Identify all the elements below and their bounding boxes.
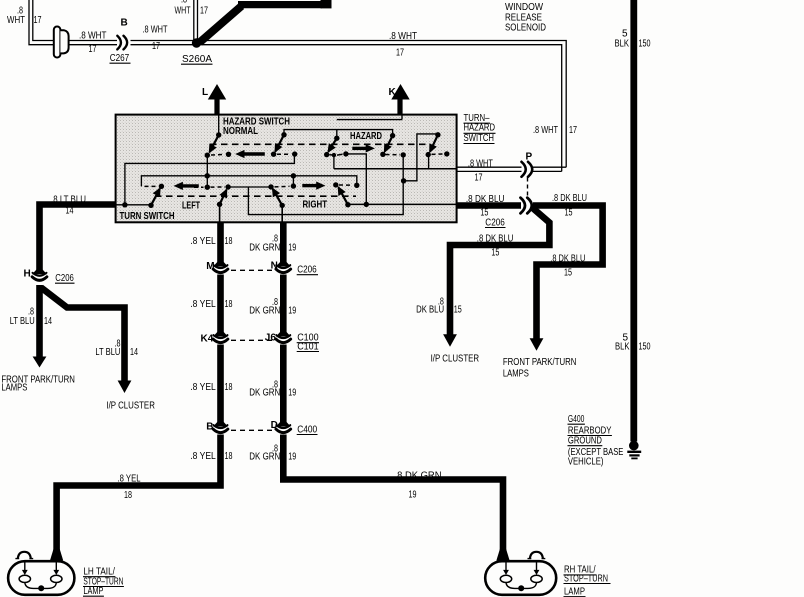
svg-text:L: L [202,87,208,98]
svg-text:.8 WHT: .8 WHT [468,158,493,169]
svg-text:18: 18 [225,451,233,462]
svg-text:LAMPS: LAMPS [503,369,529,380]
wire .8 WHT horizontal into turn-hazard switch (double line with P connector) [457,167,567,171]
svg-text:C206: C206 [485,217,505,228]
hazard movement arrow (right) [352,147,366,150]
dashed link B-D [231,429,273,431]
wire .8 DK BLU from C206 to front park/turn lamps (right) [533,206,603,340]
svg-text:WHT: WHT [175,6,191,17]
svg-text:19: 19 [288,243,296,254]
svg-text:15: 15 [491,248,499,259]
hazard linkage dashed line [210,143,426,145]
turn movement arrow (right) [302,184,317,187]
svg-text:H: H [24,269,31,280]
svg-text:LAMP: LAMP [83,586,103,597]
turn sw section C contact [268,184,273,189]
svg-text:.8 LT BLU: .8 LT BLU [51,194,86,205]
dashed link sect1 [211,153,225,156]
svg-text:18: 18 [124,490,132,501]
connector C267 chevrons [117,36,127,50]
svg-text:N: N [271,261,278,272]
svg-text:19: 19 [288,452,296,463]
wire 5 BLK vertical (right side) [630,0,637,442]
svg-text:18: 18 [225,299,233,310]
svg-text:18: 18 [225,382,233,393]
svg-text:14: 14 [130,347,138,358]
solid link sectB-C [228,186,271,188]
hazard sw section 3 pivot [334,136,339,141]
svg-text:BLK: BLK [615,39,630,50]
svg-text:.8 WHT: .8 WHT [143,25,168,36]
arrow K (to flasher, exits box top) [391,84,409,115]
svg-text:15: 15 [564,268,572,279]
svg-text:BLK: BLK [615,342,630,353]
connector J6 chevrons (C101) [276,332,291,342]
turn-hazard switch assembly box [116,115,457,223]
svg-text:LAMPS: LAMPS [1,383,27,394]
dashed link sectA [145,185,159,187]
turn movement arrow (left) [182,184,199,187]
svg-text:D: D [271,420,278,431]
DK BLU output line inside box [348,203,456,205]
dashed link sectC [275,185,290,188]
svg-text:C267: C267 [110,53,130,64]
svg-text:I/P CLUSTER: I/P CLUSTER [431,354,480,365]
hazard contact wired to DK BLU output [343,151,348,156]
arrow to I/P cluster (left) [118,381,132,394]
svg-text:P: P [526,152,533,163]
dashed link K4-J6 [231,339,273,341]
svg-text:15: 15 [454,305,462,316]
svg-text:C101: C101 [297,341,319,352]
svg-text:DK GRN: DK GRN [249,243,280,254]
svg-text:LT BLU: LT BLU [95,347,120,358]
svg-text:.8 WHT: .8 WHT [533,125,558,136]
hazard sw section 2 contact [271,152,276,157]
hazard sw section 1 pivot contact [216,132,221,137]
svg-text:FRONT PARK/TURN: FRONT PARK/TURN [503,357,577,368]
svg-text:HAZARD: HAZARD [350,131,382,142]
svg-text:19: 19 [409,490,417,501]
connector D chevrons (C400) [276,422,291,432]
svg-text:B: B [206,421,213,432]
svg-text:19: 19 [288,305,296,316]
svg-text:.8 YEL: .8 YEL [190,299,216,310]
LH lamp wire flare [50,549,63,561]
arrow to I/P cluster (right) [443,334,457,347]
svg-text:B: B [121,18,128,29]
RH lamp wire flare [496,549,509,561]
turn linkage dashed line [155,195,356,197]
wire .8 LT BLU branch to I/P cluster [41,288,125,382]
hazard sw section 1 blade [210,135,219,152]
svg-text:.8 DK BLU: .8 DK BLU [466,194,505,205]
hazard movement arrow (left) [244,152,265,155]
svg-text:DK BLU: DK BLU [416,305,444,316]
WHT feed line inside box [334,168,456,170]
LH lamp spare cavity cap [15,552,33,559]
grommet (bulkhead pass-through) [54,27,69,58]
dashed link sectB [194,186,204,188]
svg-text:SWITCH: SWITCH [464,133,495,144]
svg-text:C206: C206 [297,265,317,276]
svg-text:LT BLU: LT BLU [10,316,35,327]
connector K4 chevrons (C100) [213,332,228,342]
ground G400 symbol [629,441,639,451]
svg-text:RIGHT: RIGHT [303,200,328,211]
svg-text:NORMAL: NORMAL [223,126,258,137]
svg-text:VEHICLE): VEHICLE) [568,457,604,468]
svg-text:TURN SWITCH: TURN SWITCH [120,211,175,222]
svg-text:17: 17 [569,125,577,136]
svg-text:18: 18 [225,236,233,247]
svg-text:SOLENOID: SOLENOID [505,23,546,34]
wire .8 WHT from C267 to S260A and on to right corner (double line) [131,41,567,172]
RH tail/stop-turn lamp body [485,561,556,595]
svg-text:.8 DK BLU: .8 DK BLU [552,193,587,204]
svg-text:17: 17 [152,41,160,52]
turn sw section A blade [151,189,160,206]
turn sw section C blade (DK GRN output) [273,189,282,206]
svg-text:GROUND: GROUND [568,436,602,447]
svg-text:J6: J6 [265,333,277,344]
svg-text:I/P CLUSTER: I/P CLUSTER [106,401,154,412]
dashed link sect2 [277,153,291,155]
svg-text:.8 DK BLU: .8 DK BLU [477,233,514,244]
hazard sw section 4 pivot [390,133,395,138]
LH lamp bulbs [25,563,57,571]
turn sw section D contact [333,182,338,187]
svg-text:.8 YEL: .8 YEL [118,474,141,485]
svg-text:15: 15 [565,208,573,219]
hazard sw section 2 blade [275,135,284,152]
svg-text:C206: C206 [55,273,74,284]
wire .8 LT BLU from box to H connector [40,205,116,274]
svg-text:17: 17 [34,15,42,26]
turn feed bus [141,176,356,187]
K feed bus [337,115,402,120]
hazard sw section 5 blade [430,135,438,152]
hazard sw section 4 blade [385,136,393,152]
svg-text:.8: .8 [181,0,187,6]
svg-text:K: K [389,87,397,98]
svg-text:.8 WHT: .8 WHT [79,30,107,41]
svg-text:G400: G400 [568,414,585,425]
turn sw section D blade (DK BLU output) [339,188,348,205]
thick wire from S260A up-right (to hot feed, exits top) [200,5,323,43]
svg-text:.8 DK BLU: .8 DK BLU [550,254,585,265]
wire .8 YEL vertical from box [57,222,221,552]
node: turn feed column [205,153,210,158]
svg-text:.8 WHT: .8 WHT [389,31,417,42]
L feed line into box [218,115,220,135]
connector B chevrons (C400) [213,422,228,432]
connector N chevrons (C206) [276,262,291,272]
svg-text:K4: K4 [201,334,214,345]
svg-text:DK GRN: DK GRN [249,388,280,399]
svg-text:DK GRN: DK GRN [249,305,280,316]
column from hazard contact down to bottom bus [248,155,403,215]
svg-text:LEFT: LEFT [182,200,200,211]
svg-text:WHT: WHT [7,15,25,26]
hazard sw section 3 blade [328,138,336,151]
wire .8 DK BLU branch to I/P cluster (right) [450,207,549,335]
svg-text:LAMP: LAMP [564,587,585,597]
svg-text:14: 14 [66,206,74,217]
arrow L (to flasher, exits box top) [208,84,226,115]
dashed link sect3 [330,153,343,156]
svg-text:17: 17 [475,173,483,184]
svg-text:S260A: S260A [182,54,212,65]
svg-text:.8 DK GRN: .8 DK GRN [395,471,442,482]
dashed link M-N [231,269,273,271]
svg-text:.8 YEL: .8 YEL [190,451,216,462]
svg-text:STOP–TURN: STOP–TURN [564,573,608,584]
dashed link sectD [339,184,353,186]
dashed link sect5 [432,153,444,155]
dashed link between P and C206 connector halves [527,178,529,198]
arrow to front park/turn lamps (right) [530,338,544,351]
wire .8 WHT vertical above S260A (double line) [194,0,198,41]
RH lamp bulbs [506,563,537,571]
connector C206 chevrons (DK BLU) [521,198,532,214]
svg-text:150: 150 [639,342,651,353]
svg-text:M: M [206,261,214,272]
wire .8 LT BLU below H to front park/turn lamps [36,285,43,357]
LH tail/stop-turn lamp body [8,561,74,595]
svg-text:C400: C400 [297,424,317,435]
svg-text:150: 150 [639,39,651,50]
svg-text:17: 17 [200,6,208,17]
connector H (C206) chevrons [32,270,47,280]
wire .8 WHT vertical feed at top left (double line) [29,0,55,45]
svg-text:.8 YEL: .8 YEL [190,382,216,393]
svg-text:DK GRN: DK GRN [249,452,280,463]
svg-text:17: 17 [89,44,97,55]
wire .8 DK GRN vertical from box [283,222,503,552]
svg-text:17: 17 [396,48,404,59]
connector P chevrons (part of C206) [522,162,533,177]
dashed link sect4 [386,154,401,156]
wire .8 DK BLU from box to C206 [457,202,522,209]
RH lamp spare cavity cap [528,552,546,559]
svg-text:19: 19 [288,388,296,399]
connector M chevrons (C206) [213,262,228,272]
contact [226,152,231,157]
svg-text:14: 14 [44,316,52,327]
drop from hazard contact to WHT feed line [333,155,335,169]
wire from sect2 pivot up to K bus [284,130,393,139]
LT BLU entry line [116,204,151,206]
svg-text:.8 YEL: .8 YEL [190,236,216,247]
arrow to front park/turn lamps (left) [33,357,47,368]
turn sw section B blade (YEL output) [220,190,227,204]
splice S260A [192,38,201,47]
wire .8 WHT from grommet to C267 (double line) [69,41,117,45]
LT BLU bus (left output) [125,155,295,205]
drop from sect5 blade contact to WHT feed line [428,155,430,169]
hazard sw section 5 wiring [404,134,438,181]
